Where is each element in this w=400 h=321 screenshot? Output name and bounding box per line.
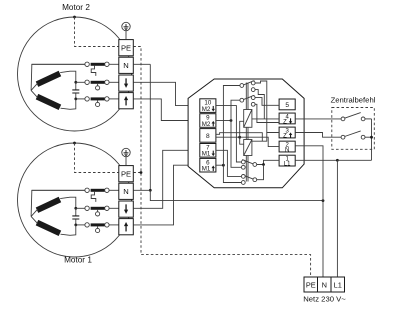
motor terminal cell U (Motor 1): [119, 219, 134, 235]
svg-text:N: N: [123, 61, 128, 70]
thermal contact row down (Motor 1): [76, 207, 85, 209]
motor circle Motor 2: [18, 17, 132, 131]
unit terminal cell 7: [200, 144, 216, 158]
central switch 1 (down): [341, 117, 345, 121]
unit terminal cell 10: [200, 99, 216, 113]
svg-text:Motor 2: Motor 2: [62, 3, 90, 12]
svg-text:5: 5: [285, 102, 289, 109]
wire motor2 N to N bus: [133, 63, 150, 65]
contact S2 common: [240, 98, 244, 102]
svg-text:Netz 230 V~: Netz 230 V~: [303, 294, 346, 303]
unit terminal cell 5: [279, 99, 295, 110]
svg-text:L1: L1: [284, 162, 291, 168]
wire terminal 10 to contact S3a (M2 down net): [216, 106, 242, 162]
winding star point node (Motor 1): [31, 209, 37, 223]
thermal contact row down (Motor 2): [76, 81, 85, 83]
wire switch2 to return riser: [365, 136, 372, 138]
motor terminal cell D (Motor 1): [119, 201, 134, 217]
relay K1: [244, 110, 252, 128]
wire terminal 8 N common: [216, 136, 240, 138]
wire contact S2b to terminal 4: [255, 104, 279, 122]
motor winding 1 (Motor 1): [36, 197, 61, 213]
mains terminal cell PE: [304, 277, 318, 292]
unit terminal cell 3: [279, 127, 295, 138]
wire motor1 down to terminal 7: [133, 150, 200, 208]
wire Z-down to central switch 1: [295, 118, 341, 120]
contact S3 common: [253, 163, 257, 167]
protective earth symbol (Motor 1): [122, 148, 130, 156]
thermal overload element (Motor 2): [91, 66, 96, 76]
unit terminal cell 8: [200, 129, 216, 143]
wire capacitor bottom (Motor 1): [75, 219, 77, 225]
svg-text:N: N: [322, 280, 327, 289]
svg-text:M1: M1: [202, 151, 211, 158]
contact S3 arm: [242, 160, 253, 164]
contact S1 throw a: [251, 81, 255, 85]
contact S4 throw b: [241, 181, 245, 185]
node capacitor bottom junction (Motor 2): [74, 98, 77, 101]
svg-text:M2: M2: [202, 106, 211, 113]
motor circle Motor 1: [18, 143, 132, 257]
wire motor1 up to terminal 6: [133, 165, 200, 225]
svg-text:PE: PE: [306, 280, 316, 289]
wire contact S1a to Z-up line: [255, 81, 267, 133]
wire capacitor bottom (Motor 2): [75, 93, 77, 99]
wire winding1 to capacitor (Motor 2): [60, 71, 76, 82]
svg-text:PE: PE: [121, 43, 131, 52]
limit switch actuator (down row, Motor 1): [97, 210, 99, 212]
contact S1 arm: [243, 81, 254, 85]
node central return junction: [370, 136, 373, 139]
wire terminal 4 Z-down to relay K1 coil: [252, 118, 279, 120]
svg-text:M1: M1: [202, 166, 211, 173]
thermal contact row up (Motor 1): [76, 224, 85, 226]
wire L1 from unit: [295, 159, 337, 161]
Zentralbefehl dashed enclosure: [332, 108, 375, 150]
relay K2: [244, 140, 252, 156]
wire star point to N contact (Motor 1): [31, 190, 85, 216]
limit switch actuator (up row, Motor 1): [97, 226, 99, 228]
wire terminal 9 (M2 up net): [216, 120, 231, 122]
contact S4 arm: [242, 175, 253, 179]
contact S3 throw a: [241, 160, 245, 164]
svg-text:PE: PE: [121, 169, 131, 178]
wire N bus to mains riser: [150, 190, 323, 200]
wire contact S2 common to S3b: [231, 100, 241, 167]
wire capacitor to winding2 (Motor 2): [61, 99, 76, 109]
node motor frame PE tap (Motor 2): [73, 16, 76, 19]
svg-text:Motor 1: Motor 1: [64, 256, 92, 265]
wire central command return riser: [371, 119, 373, 160]
thermal overload element (Motor 1): [91, 192, 96, 202]
wire terminal 6 (M1 up net): [216, 164, 224, 166]
dashed PE bus to mains: [133, 47, 310, 278]
node motor1 N junction: [149, 189, 152, 192]
wire star point to N contact (Motor 2): [31, 64, 85, 90]
contact S1 common: [240, 84, 244, 88]
contact S1 throw b: [251, 88, 255, 92]
wire contact S2a to terminal 5: [255, 98, 279, 106]
protective earth symbol (Motor 2): [122, 22, 130, 30]
node capacitor bottom junction (Motor 1): [74, 224, 77, 227]
unit terminal cell 2: [279, 141, 295, 152]
node PE bus junction: [140, 171, 143, 174]
wire switch1 to return riser: [365, 118, 372, 120]
wire contact S1b to Z-down line: [255, 90, 264, 119]
wire terminal 7 to contact S4a (M1 down net): [216, 150, 242, 176]
unit terminal cell 4: [279, 113, 295, 124]
node M1 up junction: [222, 164, 225, 167]
wire L1 to mains terminal: [336, 160, 338, 277]
svg-text:N: N: [285, 148, 289, 154]
dashed PE wire motor1 to PE bus: [133, 172, 141, 174]
unit terminal cell 1: [279, 155, 295, 166]
motor terminal cell D (Motor 2): [119, 75, 134, 91]
svg-text:Z: Z: [283, 119, 287, 125]
wire coil common to terminal 2 N: [240, 137, 279, 146]
thermal contact row up (Motor 2): [76, 98, 85, 100]
motor terminal cell N (Motor 2): [119, 57, 134, 73]
motor terminal cell PE (Motor 2): [119, 40, 134, 56]
svg-text:Z: Z: [283, 134, 287, 140]
limit switch actuator (down row, Motor 2): [97, 84, 99, 86]
wire N to mains terminal: [295, 146, 323, 277]
motor terminal cell N (Motor 1): [119, 183, 134, 199]
capacitor C (Motor 1): [72, 216, 79, 219]
svg-text:N: N: [123, 187, 128, 196]
node capacitor top junction (Motor 1): [74, 207, 77, 210]
wire L1 to contact S4 common: [257, 165, 264, 180]
wire terminal 1 L1 to contact S3 common: [257, 160, 279, 164]
control unit U1 octagon housing: [188, 79, 304, 188]
wire winding1 to capacitor (Motor 1): [60, 197, 76, 208]
wire coil common to relay K1: [240, 121, 244, 137]
svg-text:Zentralbefehl: Zentralbefehl: [331, 96, 376, 105]
dashed PE wire motor frame to PE cell (Motor 1): [75, 143, 119, 173]
contact S4 throw a: [241, 175, 245, 179]
dashed PE wire motor frame to PE cell (Motor 2): [75, 17, 119, 47]
thermal contact row N (Motor 1): [32, 189, 85, 191]
wire earth symbol to PE cell (Motor 1): [125, 157, 127, 166]
wire motor1 N: [133, 189, 150, 191]
thermal contact row N (Motor 2): [32, 63, 85, 65]
capacitor C (Motor 2): [72, 90, 79, 93]
mechanical linkage shaft: [245, 83, 247, 110]
node M2 up junction: [230, 119, 233, 122]
winding star point node (Motor 2): [31, 83, 37, 97]
wire earth symbol to PE cell (Motor 2): [125, 31, 127, 40]
contact S2 arm: [243, 95, 254, 99]
node capacitor top junction (Motor 2): [74, 81, 77, 84]
wire coil common to relay K2: [240, 137, 244, 144]
node L1 junction: [336, 159, 339, 162]
wire motor2 up to terminal 9: [133, 99, 200, 121]
node L1 contact junction: [262, 163, 265, 166]
wire capacitor to winding2 (Motor 1): [61, 225, 76, 235]
contact S4 common: [253, 178, 257, 182]
wire motor2 down to terminal 10: [133, 82, 200, 105]
svg-text:L1: L1: [334, 280, 342, 289]
motor terminal cell PE (Motor 1): [119, 166, 134, 182]
unit terminal cell 9: [200, 114, 216, 128]
svg-text:M2: M2: [202, 121, 211, 128]
contact S2 throw b: [251, 102, 255, 106]
mains terminal cell N: [318, 277, 332, 292]
wire L1 to central command return: [337, 159, 371, 161]
limit switch actuator (up row, Motor 2): [97, 100, 99, 102]
wire Z-up to central switch 2: [295, 133, 341, 138]
motor winding 2 (Motor 2): [36, 94, 61, 110]
wire terminal 8 upper branch: [216, 133, 262, 142]
contact S2 throw a: [251, 96, 255, 100]
svg-text:8: 8: [206, 133, 210, 140]
wire terminal 3 Z-up to relay K2 coil: [252, 133, 279, 142]
motor winding 2 (Motor 1): [36, 220, 61, 236]
node motor frame PE tap (Motor 1): [73, 142, 76, 145]
contact S3 throw b: [241, 165, 245, 169]
motor winding 1 (Motor 2): [36, 71, 61, 87]
central switch 2 (up): [341, 135, 345, 139]
unit terminal cell 6: [200, 158, 216, 172]
node N bus junction: [322, 199, 325, 202]
motor terminal cell U (Motor 2): [119, 93, 134, 109]
node coil common junction: [238, 136, 241, 139]
mains terminal cell L1: [331, 277, 345, 292]
wire contact S1 common to S4b: [223, 86, 241, 183]
